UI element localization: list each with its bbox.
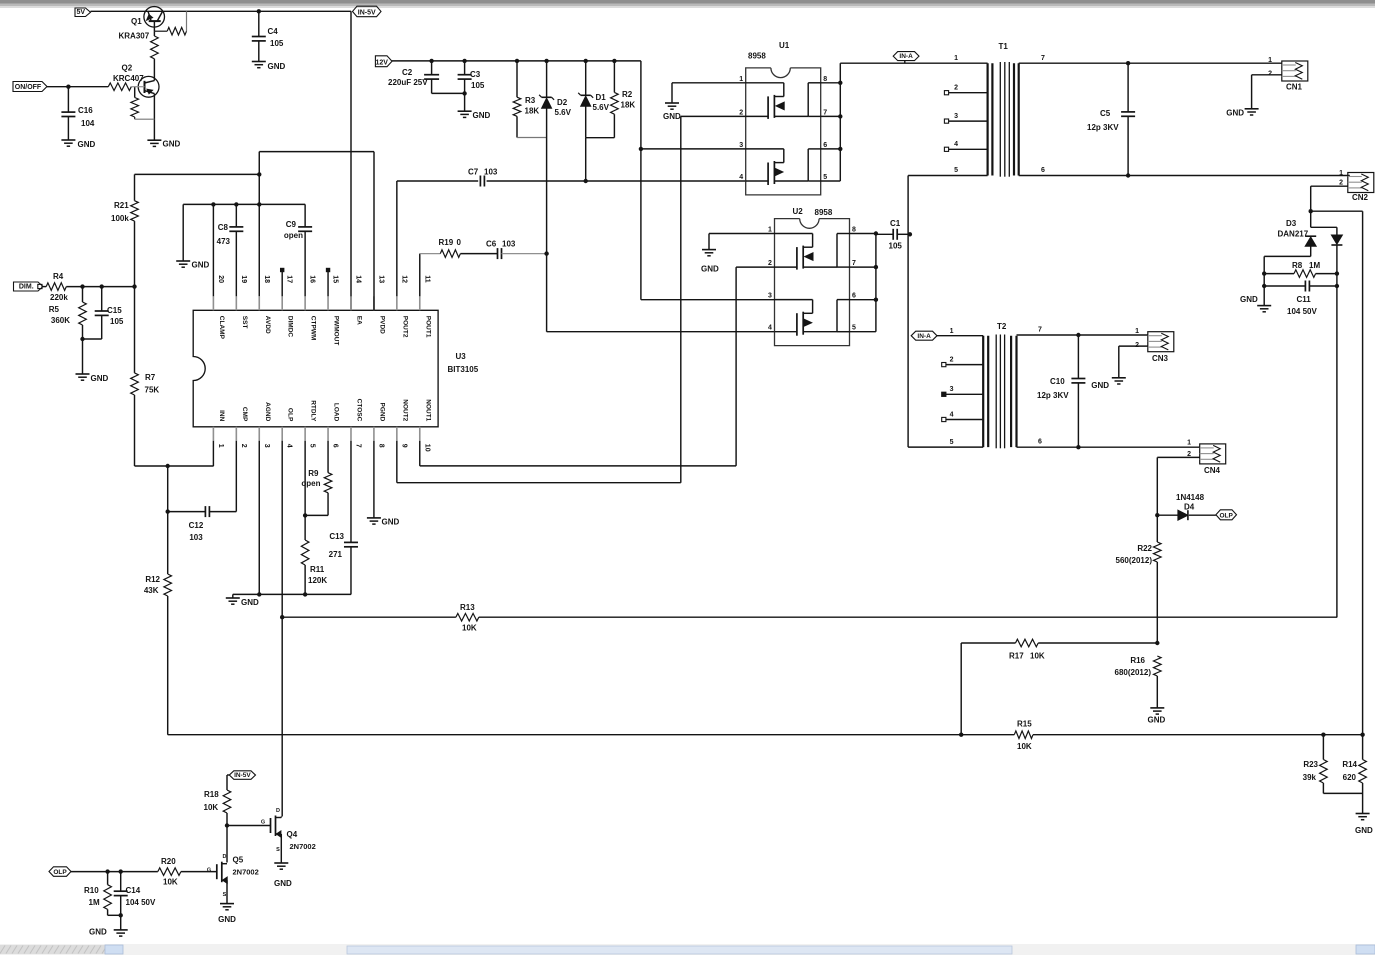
wire CN3 pin2 to ground bbox=[1119, 345, 1148, 347]
wire IN-5V down to U3 pin 14 (EA) bbox=[350, 11, 352, 310]
capacitor C3 105 bbox=[464, 61, 466, 75]
svg-text:IN-5V: IN-5V bbox=[234, 772, 251, 779]
svg-text:R19: R19 bbox=[439, 238, 454, 247]
svg-text:1: 1 bbox=[1268, 57, 1272, 64]
node R5 bottom bbox=[80, 337, 84, 341]
svg-text:5.6V: 5.6V bbox=[593, 103, 610, 112]
svg-text:8958: 8958 bbox=[815, 208, 833, 217]
wire U1 right-side common vertical bbox=[839, 63, 841, 181]
wire R12 column bbox=[167, 466, 169, 512]
wire T1 pin5 down to T2 pin5 bbox=[907, 176, 909, 448]
svg-text:NOUT2: NOUT2 bbox=[401, 399, 408, 421]
T2 pin1 wire bbox=[937, 335, 983, 337]
svg-text:CTOSC: CTOSC bbox=[355, 399, 362, 422]
port IN-A at T1 bbox=[893, 52, 919, 61]
ground C14 bbox=[114, 929, 128, 931]
svg-text:T1: T1 bbox=[999, 42, 1009, 51]
svg-text:R21: R21 bbox=[114, 201, 129, 210]
T1 pin7 wire to C5 and CN1 bbox=[1019, 62, 1282, 64]
wire R9 bottom jog to pin5 column bbox=[305, 514, 328, 516]
node C1 line on T column bbox=[908, 446, 983, 448]
wire pin2 CMP down to C12 bbox=[235, 441, 237, 512]
wire 12V rail bbox=[392, 60, 641, 62]
svg-text:C8: C8 bbox=[218, 223, 229, 232]
svg-text:CN2: CN2 bbox=[1352, 193, 1369, 202]
resistor R22 560(2012) bbox=[1156, 515, 1158, 542]
svg-text:7: 7 bbox=[823, 109, 827, 116]
svg-text:75K: 75K bbox=[145, 386, 160, 395]
svg-text:7: 7 bbox=[1041, 55, 1045, 62]
svg-text:POUT2: POUT2 bbox=[401, 316, 408, 338]
ground C3 bbox=[458, 110, 472, 112]
svg-text:GND: GND bbox=[192, 261, 210, 270]
svg-text:R4: R4 bbox=[53, 272, 64, 281]
svg-text:C7: C7 bbox=[468, 168, 479, 177]
svg-text:560(2012): 560(2012) bbox=[1116, 556, 1153, 565]
pin15 no-connect square bbox=[327, 272, 329, 296]
pin 19 stub U3 top (SST) bbox=[235, 296, 237, 310]
ground CN1 bbox=[1245, 108, 1259, 110]
node R11 gnd line bbox=[303, 592, 307, 596]
wire AVDD bus bbox=[183, 203, 305, 205]
resistor Q2 base-emitter (internal) bbox=[131, 98, 139, 118]
wire 12V rail down to U1/U2 pin3 bbox=[640, 61, 642, 149]
svg-text:0: 0 bbox=[457, 238, 462, 247]
svg-text:14: 14 bbox=[354, 275, 361, 283]
ground Q5 bbox=[220, 903, 234, 905]
svg-text:BIT3105: BIT3105 bbox=[448, 365, 479, 374]
diode D3 right half (down) bbox=[1331, 244, 1342, 246]
svg-text:1: 1 bbox=[954, 55, 958, 62]
pin 4 stub U3 bottom (OLP) bbox=[281, 427, 283, 441]
svg-text:GND: GND bbox=[78, 140, 96, 149]
svg-text:6: 6 bbox=[852, 293, 856, 300]
wire pin5 RTDLY down bbox=[304, 441, 306, 516]
pin 5 stub U3 bottom (RTDLY) bbox=[304, 427, 306, 441]
zener D2 5.6V bbox=[546, 61, 548, 97]
svg-text:5.6V: 5.6V bbox=[555, 108, 572, 117]
svg-text:Q2: Q2 bbox=[122, 64, 133, 73]
transformer T1 secondary bbox=[1013, 63, 1015, 175]
svg-text:104: 104 bbox=[81, 119, 95, 128]
wire gnd stub bbox=[232, 594, 234, 598]
node R21/R7 on DIM line bbox=[132, 284, 136, 288]
top window chrome bar bbox=[0, 0, 1375, 4]
svg-text:4: 4 bbox=[286, 444, 293, 448]
capacitor C7 103 bbox=[479, 176, 481, 187]
node C11 right bbox=[1335, 284, 1339, 288]
T1 pin4 stub bbox=[944, 147, 948, 151]
resistor R9 open (pin6 LOAD) bbox=[327, 441, 329, 473]
T2 pin7 wire to C10 and CN3 bbox=[1017, 334, 1148, 336]
svg-text:LOAD: LOAD bbox=[333, 403, 340, 422]
svg-text:GND: GND bbox=[241, 598, 259, 607]
svg-text:1N4148: 1N4148 bbox=[1176, 493, 1205, 502]
svg-text:18: 18 bbox=[263, 275, 270, 283]
svg-text:10: 10 bbox=[423, 444, 430, 452]
port 12V bbox=[375, 56, 392, 67]
T1 pin5 wire bbox=[908, 175, 988, 177]
mosfet upper of U2 bbox=[775, 233, 813, 235]
svg-text:16: 16 bbox=[309, 275, 316, 283]
connector CN2 bbox=[1348, 173, 1374, 193]
node C4 on 5V rail bbox=[257, 9, 261, 13]
wire pin4 OLP long column down bbox=[281, 441, 283, 817]
diode D4 1N4148 bbox=[1157, 514, 1177, 516]
svg-text:EA: EA bbox=[355, 316, 362, 325]
svg-text:C9: C9 bbox=[286, 220, 297, 229]
transformer T1 core bbox=[999, 62, 1001, 177]
resistor Q1 base series (internal) bbox=[153, 31, 155, 36]
svg-text:C3: C3 bbox=[470, 70, 481, 79]
wire pin10 NOUT1 down right and up to U2 pin2 bbox=[419, 441, 421, 466]
svg-text:GND: GND bbox=[473, 111, 491, 120]
svg-text:G: G bbox=[261, 820, 265, 826]
wire U2 pin2 from NOUT1 riser bbox=[736, 266, 774, 268]
svg-text:1: 1 bbox=[1339, 170, 1343, 177]
svg-text:RTDLY: RTDLY bbox=[310, 400, 317, 422]
svg-text:open: open bbox=[301, 479, 320, 488]
svg-text:R5: R5 bbox=[49, 305, 60, 314]
svg-text:6: 6 bbox=[823, 142, 827, 149]
ground bus bbox=[176, 260, 190, 262]
svg-text:R22: R22 bbox=[1137, 544, 1152, 553]
wire D2 column down to U2 pin4 line bbox=[546, 138, 548, 332]
svg-text:GND: GND bbox=[663, 112, 681, 121]
svg-text:2: 2 bbox=[950, 357, 954, 364]
resistor R2 18K bbox=[613, 61, 615, 93]
node R22/R16/R17 bbox=[1155, 641, 1159, 645]
resistor R7 75K bbox=[134, 287, 136, 373]
resistor R15 10K bbox=[1014, 731, 1033, 739]
svg-text:100k: 100k bbox=[111, 214, 129, 223]
svg-text:473: 473 bbox=[217, 237, 231, 246]
transformer T2 primary bbox=[982, 336, 984, 447]
svg-text:2: 2 bbox=[1268, 71, 1272, 78]
svg-text:12p 3KV: 12p 3KV bbox=[1037, 391, 1069, 400]
T1 pin2 stub bbox=[944, 91, 948, 95]
svg-text:2: 2 bbox=[1339, 180, 1343, 187]
port OLP bottom-left bbox=[49, 867, 71, 877]
node R3 bbox=[515, 59, 519, 63]
svg-text:10K: 10K bbox=[462, 624, 477, 633]
resistor R17 10K bbox=[1016, 639, 1039, 647]
svg-text:R13: R13 bbox=[460, 603, 475, 612]
ground C4 bbox=[252, 61, 266, 63]
svg-text:17: 17 bbox=[286, 275, 293, 283]
svg-text:105: 105 bbox=[471, 81, 485, 90]
T2 pin6 wire to C10 and CN4 bbox=[1017, 446, 1200, 448]
svg-text:C4: C4 bbox=[268, 27, 279, 36]
node pin18 R21 line bbox=[257, 172, 261, 176]
svg-text:R20: R20 bbox=[161, 857, 176, 866]
capacitor C10 12p 3KV bbox=[1077, 335, 1079, 379]
wire D1 bottom to POUT-line bbox=[585, 138, 587, 181]
svg-text:C6: C6 bbox=[486, 240, 497, 249]
svg-text:7: 7 bbox=[852, 260, 856, 267]
svg-text:10K: 10K bbox=[1017, 742, 1032, 751]
svg-text:C12: C12 bbox=[189, 521, 204, 530]
wire R17 right segment bbox=[1038, 642, 1157, 644]
node C11 left bbox=[1262, 284, 1266, 288]
svg-text:1: 1 bbox=[217, 444, 224, 448]
node C3 bbox=[462, 59, 466, 63]
node D1 on C7 line bbox=[584, 179, 588, 183]
svg-text:GND: GND bbox=[268, 62, 286, 71]
bottom scrollbar strip bbox=[0, 944, 1375, 955]
svg-text:3: 3 bbox=[739, 142, 743, 149]
svg-text:GND: GND bbox=[91, 374, 109, 383]
svg-text:2N7002: 2N7002 bbox=[290, 842, 316, 851]
wire R17 left leg down to R15 line bbox=[960, 643, 962, 735]
svg-text:1: 1 bbox=[1135, 328, 1139, 335]
wire pin9 NOUT2 down right and up to U1 pin2 bbox=[396, 441, 398, 483]
node D3 top bbox=[1309, 209, 1313, 213]
svg-text:360K: 360K bbox=[51, 316, 70, 325]
svg-text:12p 3KV: 12p 3KV bbox=[1087, 123, 1119, 132]
resistor R12 43K bbox=[167, 512, 169, 574]
svg-text:PVDD: PVDD bbox=[378, 316, 385, 334]
svg-text:Q1: Q1 bbox=[131, 17, 142, 26]
svg-text:IN-5V: IN-5V bbox=[358, 9, 376, 16]
svg-text:PWMOUT: PWMOUT bbox=[333, 316, 340, 346]
svg-text:10K: 10K bbox=[163, 878, 178, 887]
pin 14 stub U3 top (EA) bbox=[350, 296, 352, 310]
T2 pin3 stub bbox=[942, 392, 946, 396]
svg-text:IN-A: IN-A bbox=[917, 333, 931, 340]
node D4 bbox=[1155, 513, 1159, 517]
svg-text:R14: R14 bbox=[1342, 760, 1357, 769]
svg-text:AVDD: AVDD bbox=[264, 316, 271, 334]
node D2 bbox=[544, 59, 548, 63]
port DIM. bbox=[14, 282, 44, 291]
wire pin12 POUT2 up to C7 line bbox=[396, 181, 398, 296]
pin 2 stub U3 bottom (CMP) bbox=[235, 427, 237, 441]
port OLP at D4 bbox=[1216, 510, 1237, 520]
pin 20 stub U3 top (CLAMP) bbox=[212, 296, 214, 310]
svg-text:GND: GND bbox=[1240, 295, 1258, 304]
ground Q4 bbox=[274, 862, 288, 864]
connector CN4 bbox=[1200, 444, 1226, 464]
node C8 bus bbox=[234, 202, 238, 206]
T1 pin6 wire to C5 and CN2 bbox=[1019, 175, 1350, 177]
port ON/OFF bbox=[13, 82, 47, 92]
wire to ground R5 bbox=[82, 339, 84, 374]
svg-text:GND: GND bbox=[1226, 109, 1244, 118]
transistor module U2 8958 body bbox=[775, 219, 850, 346]
svg-text:D2: D2 bbox=[557, 98, 568, 107]
pin17 no-connect square bbox=[281, 272, 283, 296]
node C1 to T-column bbox=[908, 232, 912, 236]
svg-text:GND: GND bbox=[382, 518, 400, 527]
svg-text:S: S bbox=[276, 847, 280, 853]
svg-text:1M: 1M bbox=[1309, 261, 1320, 270]
svg-text:10K: 10K bbox=[1030, 652, 1045, 661]
capacitor C12 103 bbox=[168, 511, 206, 513]
wire pin18 AVDD up through bus bbox=[258, 152, 260, 297]
transformer T1 primary bbox=[986, 63, 988, 175]
svg-text:103: 103 bbox=[484, 168, 498, 177]
svg-text:5: 5 bbox=[823, 174, 827, 181]
svg-text:GND: GND bbox=[1355, 826, 1373, 835]
svg-text:D3: D3 bbox=[1286, 219, 1297, 228]
node C16 bbox=[66, 85, 70, 89]
resistor R10 1M bbox=[107, 872, 109, 885]
ground AGND bbox=[226, 597, 240, 599]
wire R13 right segment to D3 column bbox=[479, 616, 1337, 618]
resistor R14 620 bbox=[1362, 735, 1364, 760]
node R15 line left bbox=[959, 733, 963, 737]
wire ON/OFF to Q2 base resistor bbox=[47, 86, 108, 88]
node pin18 bus bbox=[257, 202, 261, 206]
svg-text:GND: GND bbox=[163, 140, 181, 149]
wire IN-5V to R18 bbox=[227, 774, 229, 776]
svg-text:13: 13 bbox=[377, 275, 384, 283]
node R12 top bbox=[166, 464, 170, 468]
pin 15 stub U3 top (PWMOUT) bbox=[327, 296, 329, 310]
wire U2 right-side common vertical bbox=[875, 234, 877, 332]
resistor R16 680(2012) bbox=[1154, 656, 1162, 676]
svg-text:R18: R18 bbox=[204, 790, 219, 799]
wire pin8 PGND to ground bbox=[373, 441, 375, 518]
node R14 bbox=[1360, 733, 1364, 737]
svg-text:8958: 8958 bbox=[748, 52, 766, 61]
transistor Q1 KRA307 bbox=[144, 6, 165, 27]
svg-text:103: 103 bbox=[189, 533, 203, 542]
svg-text:9: 9 bbox=[400, 444, 407, 448]
svg-text:R7: R7 bbox=[145, 373, 156, 382]
T1 pin3 stub bbox=[944, 119, 948, 123]
svg-text:R3: R3 bbox=[525, 96, 536, 105]
wire R17 left segment bbox=[961, 642, 1015, 644]
svg-text:104 50V: 104 50V bbox=[126, 898, 156, 907]
svg-text:IN-A: IN-A bbox=[899, 53, 913, 60]
svg-text:19: 19 bbox=[240, 275, 247, 283]
svg-text:CLAMP: CLAMP bbox=[218, 316, 225, 340]
svg-text:R2: R2 bbox=[622, 90, 633, 99]
wire U1 pin1 to ground bbox=[672, 82, 746, 84]
svg-text:220k: 220k bbox=[50, 293, 68, 302]
svg-text:2: 2 bbox=[240, 444, 247, 448]
pin 8 stub U3 bottom (PGND) bbox=[373, 427, 375, 441]
node C15 bbox=[100, 284, 104, 288]
transistor Q5 2N7002 bbox=[216, 864, 218, 879]
transistor Q2 KRC407 bbox=[138, 76, 159, 97]
svg-text:D: D bbox=[223, 854, 227, 860]
resistor R20 10K bbox=[158, 868, 181, 876]
wire R21 line bbox=[135, 173, 260, 175]
svg-text:3: 3 bbox=[263, 444, 270, 448]
svg-text:8: 8 bbox=[852, 227, 856, 234]
ground R16 bbox=[1150, 707, 1164, 709]
node R10 bbox=[105, 869, 109, 873]
resistor R18 10K bbox=[223, 790, 231, 813]
svg-text:C10: C10 bbox=[1050, 377, 1065, 386]
node C14 bbox=[119, 869, 123, 873]
node R5 bbox=[80, 284, 84, 288]
svg-text:C15: C15 bbox=[107, 306, 122, 315]
svg-text:105: 105 bbox=[270, 39, 284, 48]
svg-text:POUT1: POUT1 bbox=[424, 316, 431, 338]
ground PGND bbox=[367, 517, 381, 519]
wire U2 pin4 line (gate lower FET) bbox=[547, 331, 775, 333]
ground CN3 bbox=[1112, 377, 1126, 379]
svg-text:PGND: PGND bbox=[378, 403, 385, 422]
ground R14 bbox=[1356, 813, 1370, 815]
svg-text:CN3: CN3 bbox=[1152, 354, 1169, 363]
diode D3 left half (up) bbox=[1305, 235, 1316, 237]
node R8 right bbox=[1335, 271, 1339, 275]
svg-text:C1: C1 bbox=[890, 219, 901, 228]
resistor R11 120K bbox=[304, 515, 306, 540]
svg-text:GND: GND bbox=[1091, 381, 1109, 390]
zener D1 5.6V bbox=[585, 61, 587, 95]
svg-text:C2: C2 bbox=[402, 68, 413, 77]
svg-text:C13: C13 bbox=[329, 532, 344, 541]
svg-text:6: 6 bbox=[1038, 439, 1042, 446]
svg-text:6: 6 bbox=[332, 444, 339, 448]
resistor Q2 base series (internal) bbox=[108, 83, 131, 91]
wire CN2 pin2 down to D3 node bbox=[1311, 185, 1348, 187]
pin 11 stub U3 top (POUT1) bbox=[419, 296, 421, 310]
svg-text:3: 3 bbox=[768, 293, 772, 300]
svg-text:INN: INN bbox=[218, 410, 225, 422]
port IN-5V at R18 bbox=[229, 771, 255, 780]
capacitor C15 105 bbox=[101, 287, 103, 312]
port 5V bbox=[75, 8, 91, 17]
svg-text:R15: R15 bbox=[1017, 720, 1032, 729]
svg-text:ON/OFF: ON/OFF bbox=[15, 84, 42, 91]
node D1 bbox=[584, 59, 588, 63]
wire CN1 pin2 to ground bbox=[1252, 74, 1282, 76]
svg-text:2: 2 bbox=[739, 109, 743, 116]
wire pin20 CLAMP up to bus bbox=[212, 204, 214, 296]
pin 13 stub U3 top (PVDD) bbox=[373, 296, 375, 310]
mosfet upper of U1 bbox=[746, 82, 784, 84]
node C3 bottom bbox=[462, 91, 466, 95]
svg-text:8: 8 bbox=[377, 444, 384, 448]
node U1 pin3 bbox=[639, 147, 643, 151]
svg-text:CN4: CN4 bbox=[1204, 466, 1221, 475]
resistor R5 360K bbox=[82, 287, 84, 302]
svg-text:105: 105 bbox=[110, 317, 124, 326]
capacitor C4 105 bbox=[258, 11, 260, 36]
transistor module U1 8958 body bbox=[746, 68, 821, 195]
wire CN4 pin2 down to D4 node bbox=[1157, 456, 1199, 458]
svg-text:18K: 18K bbox=[525, 107, 540, 116]
pin 10 stub U3 bottom (NOUT1) bbox=[419, 427, 421, 441]
resistor R4 220k bbox=[43, 286, 46, 288]
wire U2 pin3 from 12V column bbox=[641, 299, 775, 301]
node C2 bbox=[429, 59, 433, 63]
svg-text:OLP: OLP bbox=[287, 408, 294, 422]
node pin20 bus bbox=[211, 202, 215, 206]
svg-text:1M: 1M bbox=[89, 898, 100, 907]
svg-text:C11: C11 bbox=[1297, 295, 1312, 304]
svg-text:DIM.: DIM. bbox=[19, 284, 34, 291]
pin 1 stub U3 bottom (INN) bbox=[212, 427, 214, 441]
wire D3 node to right sense column bbox=[1311, 210, 1363, 212]
wire R5-C15 bottom join bbox=[83, 338, 102, 340]
svg-text:680(2012): 680(2012) bbox=[1115, 668, 1152, 677]
mosfet lower of U1 bbox=[746, 148, 784, 150]
node R18 bottom / Q4 gate bbox=[225, 823, 229, 827]
svg-text:4: 4 bbox=[950, 412, 954, 419]
svg-text:271: 271 bbox=[329, 550, 343, 559]
svg-text:U2: U2 bbox=[793, 207, 804, 216]
pin 12 stub U3 top (POUT2) bbox=[396, 296, 398, 310]
svg-text:8: 8 bbox=[823, 76, 827, 83]
